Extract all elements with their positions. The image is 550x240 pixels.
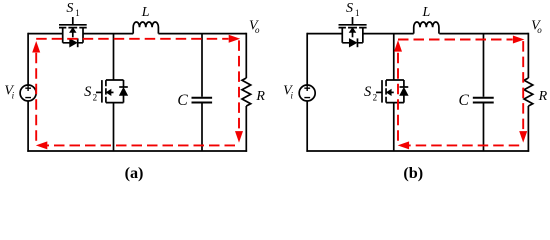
svg-text:1: 1 [75,8,80,18]
current arrow left (b) [398,141,410,149]
resistor R (a) [242,78,251,106]
wire right side (a) [245,33,247,152]
svg-text:(b): (b) [403,164,423,182]
transistor S2 switch (b) [376,80,404,103]
current arrow left (a) [36,141,48,149]
current arrow right (a) [229,35,241,43]
wire left side (b) [306,33,308,152]
current arrow right (b) [513,36,525,44]
resistor R (b) [524,78,533,106]
svg-text:(a): (a) [125,164,144,182]
svg-text:C: C [459,92,470,109]
wire top rail (a) [28,33,246,35]
current path loop, top edge (b) [398,39,513,41]
body diode of S1 (a) [63,38,83,47]
svg-text:1: 1 [355,8,360,18]
transistor S1 switch (b) [339,17,367,43]
wire left side (a) [27,33,29,152]
wire top rail (b) [307,33,528,35]
svg-text:R: R [538,89,548,104]
wire S2 branch (b) [393,34,395,151]
svg-text:2: 2 [93,92,98,102]
svg-text:L: L [141,5,150,20]
transistor S2 switch (a) [96,80,124,103]
svg-text:2: 2 [373,92,378,102]
current path loop, bottom edge (a) [46,144,235,146]
voltage source Vi (b) [299,85,315,101]
wire S2 branch (a) [113,34,115,151]
inductor L (a) [133,22,158,34]
body diode of S1 (b) [342,38,363,47]
svg-text:L: L [421,5,430,20]
capacitor C (b) [473,98,494,103]
wire bottom rail (b) [306,150,529,152]
body diode of S2 (b) [400,80,409,103]
svg-text:o: o [537,25,542,35]
svg-text:o: o [255,25,260,35]
svg-text:S: S [346,1,353,16]
inductor L (b) [414,22,439,34]
current path loop, left edge (b) [397,53,399,141]
svg-text:C: C [177,92,188,109]
transistor S1 switch (a) [59,17,87,43]
wire bottom rail (a) [27,150,247,152]
svg-text:S: S [364,84,372,100]
wire C branch (b) [482,34,484,151]
current path loop, top edge (a) [36,38,228,40]
wire C branch (a) [201,34,203,151]
svg-text:S: S [84,84,92,100]
body diode of S2 (a) [119,80,128,103]
current arrow up (a) [32,41,40,53]
current arrow down (a) [235,131,243,143]
wire right side (b) [527,33,529,152]
current arrow down (b) [519,131,527,143]
voltage source Vi (a) [20,85,36,101]
svg-text:R: R [255,89,265,104]
current path loop, right edge (b) [522,41,524,132]
current path loop, bottom edge (b) [408,144,519,146]
current path loop, left edge (a) [35,52,37,141]
capacitor C (a) [192,98,213,103]
current arrow up (b) [394,40,402,52]
svg-text:S: S [66,1,73,16]
current path loop, right edge (a) [238,40,240,131]
